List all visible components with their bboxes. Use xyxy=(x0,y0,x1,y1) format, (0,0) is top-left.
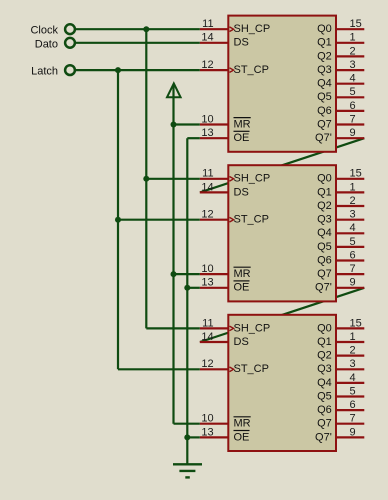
svg-text:12: 12 xyxy=(201,209,213,221)
junction Latch net at U1 row xyxy=(115,67,121,73)
svg-text:3: 3 xyxy=(350,59,356,71)
IC U1 pin 11 SH_CP stub xyxy=(200,28,229,30)
IC U1 pin 6 Q6 stub xyxy=(336,110,364,112)
terminal Dato xyxy=(35,38,75,50)
IC U1 pin 12 clock wedge xyxy=(230,68,234,73)
svg-text:Q6: Q6 xyxy=(317,254,332,266)
IC U1 pin 4 Q4 stub xyxy=(336,83,364,85)
svg-text:Q2: Q2 xyxy=(317,50,332,62)
svg-text:4: 4 xyxy=(350,222,356,234)
svg-text:10: 10 xyxy=(201,113,213,125)
IC U3 pin 7 Q7 stub xyxy=(336,423,364,425)
IC U1 pin 13 OE stub xyxy=(200,137,229,139)
IC U1 pin 9 Q7' stub xyxy=(336,137,364,139)
wire OE branch to U2 OE xyxy=(187,287,200,289)
svg-text:7: 7 xyxy=(350,113,356,125)
svg-text:2: 2 xyxy=(350,345,356,357)
IC U2 pin 10 MR stub xyxy=(200,273,229,275)
IC U1 pin 2 Q2 stub xyxy=(336,55,364,57)
svg-text:SH_CP: SH_CP xyxy=(234,322,271,334)
svg-text:5: 5 xyxy=(350,86,356,98)
svg-text:Dato: Dato xyxy=(35,38,58,50)
svg-text:3: 3 xyxy=(350,209,356,221)
svg-text:SH_CP: SH_CP xyxy=(234,173,271,185)
IC U1 74HC595 shift register body xyxy=(228,16,336,152)
IC U3 pin 2 Q2 stub xyxy=(336,355,364,357)
svg-text:Q5: Q5 xyxy=(317,390,332,402)
IC U2 pin 2 Q2 stub xyxy=(336,205,364,207)
svg-text:14: 14 xyxy=(201,32,213,44)
junction Latch net at U2 row xyxy=(115,217,121,223)
svg-text:Q0: Q0 xyxy=(317,23,332,35)
wire U1 Q7' to U2 DS diagonal xyxy=(200,138,364,192)
IC U2 74HC595 shift register body xyxy=(228,165,336,301)
svg-text:13: 13 xyxy=(201,127,213,139)
svg-text:2: 2 xyxy=(350,195,356,207)
svg-text:Q3: Q3 xyxy=(317,363,332,375)
IC U3 74HC595 shift register body xyxy=(228,315,336,451)
power symbol VCC arrow xyxy=(167,83,181,97)
svg-text:5: 5 xyxy=(350,385,356,397)
svg-text:15: 15 xyxy=(350,18,362,30)
svg-text:Q6: Q6 xyxy=(317,404,332,416)
IC U3 pin 5 Q5 stub xyxy=(336,395,364,397)
wire U2 Q7' to U3 DS diagonal xyxy=(200,288,364,342)
svg-text:13: 13 xyxy=(201,277,213,289)
svg-text:Q3: Q3 xyxy=(317,214,332,226)
svg-text:1: 1 xyxy=(350,331,356,343)
IC U2 pin 3 Q3 stub xyxy=(336,219,364,221)
svg-text:5: 5 xyxy=(350,236,356,248)
svg-text:7: 7 xyxy=(350,263,356,275)
IC U1 pin 5 Q5 stub xyxy=(336,96,364,98)
svg-text:ST_CP: ST_CP xyxy=(234,64,269,76)
IC U2 pin 14 DS stub xyxy=(200,191,229,193)
svg-text:10: 10 xyxy=(201,263,213,275)
junction MR net at U1 row xyxy=(171,122,177,128)
svg-text:OE: OE xyxy=(234,132,250,144)
svg-text:ST_CP: ST_CP xyxy=(234,214,269,226)
svg-text:Q7': Q7' xyxy=(315,132,332,144)
svg-text:6: 6 xyxy=(350,100,356,112)
IC U2 pin 9 Q7' stub xyxy=(336,287,364,289)
svg-text:13: 13 xyxy=(201,426,213,438)
svg-text:12: 12 xyxy=(201,358,213,370)
svg-text:6: 6 xyxy=(350,249,356,261)
IC U3 pin 11 SH_CP stub xyxy=(200,327,229,329)
IC U3 pin 9 Q7' stub xyxy=(336,436,364,438)
wire MR net to U1 MR xyxy=(174,123,200,125)
svg-text:DS: DS xyxy=(234,37,249,49)
wire Clock branch to U3 SH_CP xyxy=(146,327,200,329)
IC U2 pin 15 Q0 stub xyxy=(336,178,364,180)
IC U3 pin 13 OE stub xyxy=(200,436,229,438)
svg-text:Q3: Q3 xyxy=(317,64,332,76)
svg-text:4: 4 xyxy=(350,372,356,384)
wire Clock terminal to U1 SH_CP xyxy=(75,28,200,30)
svg-text:MR: MR xyxy=(234,268,251,280)
IC U2 pin 12 clock wedge xyxy=(230,217,234,222)
svg-text:Q6: Q6 xyxy=(317,105,332,117)
IC U3 pin 1 Q1 stub xyxy=(336,341,364,343)
IC U2 pin 4 Q4 stub xyxy=(336,232,364,234)
IC U1 pin 14 DS stub xyxy=(200,42,229,44)
ground symbol xyxy=(173,437,202,477)
IC U1 pin 11 clock wedge xyxy=(230,27,234,32)
svg-text:Q7: Q7 xyxy=(317,268,332,280)
svg-text:Clock: Clock xyxy=(30,25,58,37)
svg-text:3: 3 xyxy=(350,358,356,370)
IC U2 pin 11 SH_CP stub xyxy=(200,178,229,180)
wire Dato terminal to U1 DS xyxy=(75,42,200,44)
IC U2 pin 11 clock wedge xyxy=(230,177,234,182)
svg-text:MR: MR xyxy=(234,118,251,130)
svg-text:Q7: Q7 xyxy=(317,118,332,130)
svg-text:Q7': Q7' xyxy=(315,431,332,443)
svg-text:Q7: Q7 xyxy=(317,418,332,430)
svg-text:Q0: Q0 xyxy=(317,173,332,185)
IC U3 pin 12 ST_CP stub xyxy=(200,368,229,370)
svg-text:2: 2 xyxy=(350,45,356,57)
junction Clock net at U2 row xyxy=(143,176,149,182)
svg-text:Q2: Q2 xyxy=(317,200,332,212)
wire OE branch to U3 OE xyxy=(187,436,200,438)
svg-text:SH_CP: SH_CP xyxy=(234,23,271,35)
IC U1 pin 3 Q3 stub xyxy=(336,69,364,71)
IC U1 pin 15 Q0 stub xyxy=(336,28,364,30)
svg-text:9: 9 xyxy=(350,127,356,139)
IC U3 pin 14 DS stub xyxy=(200,341,229,343)
svg-text:MR: MR xyxy=(234,418,251,430)
svg-text:12: 12 xyxy=(201,59,213,71)
junction MR net at U2 row xyxy=(171,271,177,277)
svg-text:15: 15 xyxy=(350,317,362,329)
svg-text:Q2: Q2 xyxy=(317,350,332,362)
junction Clock net at U1 row xyxy=(143,26,149,32)
svg-text:1: 1 xyxy=(350,181,356,193)
svg-text:Q1: Q1 xyxy=(317,186,332,198)
svg-text:4: 4 xyxy=(350,73,356,85)
svg-text:Q4: Q4 xyxy=(317,377,332,389)
svg-text:6: 6 xyxy=(350,399,356,411)
svg-text:9: 9 xyxy=(350,277,356,289)
IC U3 pin 6 Q6 stub xyxy=(336,409,364,411)
IC U3 pin 10 MR stub xyxy=(200,423,229,425)
IC U3 pin 4 Q4 stub xyxy=(336,382,364,384)
svg-text:10: 10 xyxy=(201,413,213,425)
wire Latch terminal to U1 ST_CP xyxy=(75,69,200,71)
svg-text:15: 15 xyxy=(350,168,362,180)
svg-text:11: 11 xyxy=(202,168,213,180)
wire OE net to U1 OE xyxy=(187,137,200,139)
IC U2 pin 13 OE stub xyxy=(200,287,229,289)
svg-text:1: 1 xyxy=(350,32,356,44)
junction OE net at U2 row xyxy=(184,285,190,291)
wire OE vertical bus xyxy=(186,138,188,437)
wire Latch branch to U2 ST_CP xyxy=(118,219,200,221)
IC U2 pin 1 Q1 stub xyxy=(336,191,364,193)
IC U1 pin 12 ST_CP stub xyxy=(200,69,229,71)
wire Clock branch to U2 SH_CP xyxy=(146,178,200,180)
wire Latch branch to U3 ST_CP xyxy=(118,368,200,370)
IC U2 pin 5 Q5 stub xyxy=(336,246,364,248)
svg-text:DS: DS xyxy=(234,186,249,198)
IC U3 pin 3 Q3 stub xyxy=(336,368,364,370)
svg-text:14: 14 xyxy=(201,331,213,343)
svg-text:Q1: Q1 xyxy=(317,37,332,49)
IC U1 pin 1 Q1 stub xyxy=(336,42,364,44)
svg-text:Q1: Q1 xyxy=(317,336,332,348)
wire MR branch to U2 MR xyxy=(174,273,200,275)
terminal Latch xyxy=(31,65,75,77)
junction OE net at ground xyxy=(184,434,190,440)
svg-text:Latch: Latch xyxy=(31,66,58,78)
IC U2 pin 12 ST_CP stub xyxy=(200,219,229,221)
svg-text:OE: OE xyxy=(234,431,250,443)
svg-text:OE: OE xyxy=(234,282,250,294)
wire Latch vertical bus xyxy=(117,70,119,369)
svg-text:Q0: Q0 xyxy=(317,322,332,334)
svg-text:Q7': Q7' xyxy=(315,282,332,294)
IC U1 pin 10 MR stub xyxy=(200,123,229,125)
wire Clock vertical bus xyxy=(145,29,147,328)
IC U3 pin 15 Q0 stub xyxy=(336,327,364,329)
IC U2 pin 7 Q7 stub xyxy=(336,273,364,275)
IC U3 pin 12 clock wedge xyxy=(230,367,234,372)
terminal Clock xyxy=(30,24,74,36)
svg-text:ST_CP: ST_CP xyxy=(234,363,269,375)
svg-text:11: 11 xyxy=(202,317,213,329)
IC U1 pin 7 Q7 stub xyxy=(336,123,364,125)
svg-text:Q5: Q5 xyxy=(317,91,332,103)
svg-text:9: 9 xyxy=(350,426,356,438)
svg-text:DS: DS xyxy=(234,336,249,348)
svg-text:Q4: Q4 xyxy=(317,78,332,90)
wire MR branch to U3 MR xyxy=(174,423,200,425)
svg-text:Q5: Q5 xyxy=(317,241,332,253)
svg-text:7: 7 xyxy=(350,413,356,425)
svg-text:14: 14 xyxy=(201,181,213,193)
svg-text:Q4: Q4 xyxy=(317,227,332,239)
wire MR vertical bus xyxy=(172,85,174,424)
IC U3 pin 11 clock wedge xyxy=(230,326,234,331)
IC U2 pin 6 Q6 stub xyxy=(336,259,364,261)
svg-text:11: 11 xyxy=(202,18,213,30)
